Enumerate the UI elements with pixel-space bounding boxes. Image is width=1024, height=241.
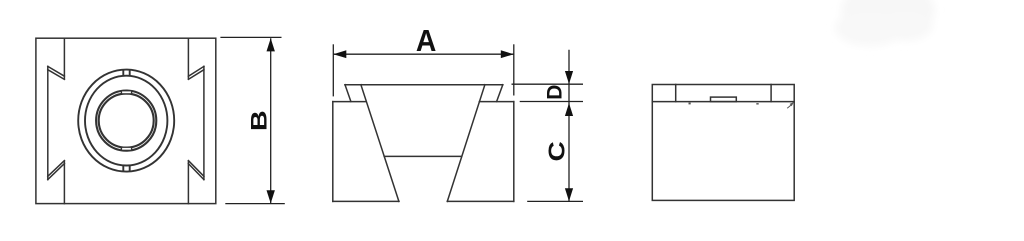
- svg-text:A: A: [416, 24, 436, 58]
- svg-text:C: C: [545, 141, 570, 161]
- svg-text:D: D: [543, 85, 566, 100]
- svg-text:B: B: [247, 110, 271, 131]
